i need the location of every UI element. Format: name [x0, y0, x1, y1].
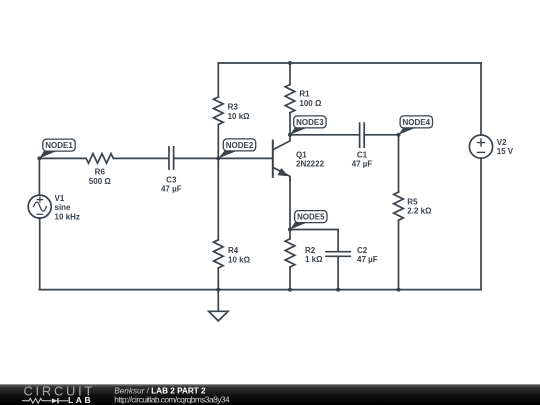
footer bar — [0, 384, 540, 405]
wire NODE4 to R5 — [398, 135, 400, 192]
footer url text — [114, 394, 230, 404]
resistor R1 — [285, 85, 295, 113]
label V1 value — [55, 194, 80, 222]
wire C3 to Q1 base — [174, 157, 272, 159]
wire V2 top lead — [480, 63, 482, 135]
svg-text:2N2222: 2N2222 — [296, 160, 325, 169]
svg-text:http://circuitlab.com/cqrqbms3: http://circuitlab.com/cqrqbms3a8y34 — [114, 394, 230, 404]
svg-text:C3: C3 — [166, 175, 177, 184]
transistor Q1 — [273, 135, 290, 181]
node NODE5 — [290, 211, 327, 230]
svg-text:47 µF: 47 µF — [352, 160, 373, 169]
label C3 value — [161, 175, 182, 193]
junction NODE5 — [288, 228, 292, 232]
wire R1 top lead — [289, 63, 291, 85]
svg-text:47 µF: 47 µF — [357, 255, 378, 264]
svg-text:R4: R4 — [228, 246, 239, 255]
svg-text:10 kΩ: 10 kΩ — [228, 112, 251, 121]
svg-text:V2: V2 — [497, 138, 507, 147]
wire C1 to NODE4 — [365, 134, 399, 136]
label C1 value — [352, 150, 373, 168]
svg-text:1 kΩ: 1 kΩ — [305, 255, 323, 264]
label R4 value — [228, 246, 251, 264]
resistor R4 — [214, 240, 224, 268]
label R3 value — [228, 103, 251, 121]
junction R2 bottom — [288, 288, 292, 292]
label C2 value — [357, 246, 378, 264]
svg-text:2.2 kΩ: 2.2 kΩ — [407, 207, 432, 216]
label Q1 value — [296, 150, 325, 168]
svg-text:LAB: LAB — [68, 395, 93, 405]
wire NODE5 to C2 branch — [290, 230, 338, 251]
wire R3 to NODE2 — [217, 125, 219, 159]
wire R5 to bottom rail — [398, 220, 400, 289]
svg-text:100 Ω: 100 Ω — [299, 99, 322, 108]
wire R2 to bottom rail — [289, 267, 291, 290]
junction NODE2 — [216, 156, 220, 160]
resistor R5 — [394, 192, 404, 220]
svg-text:Q1: Q1 — [296, 150, 307, 159]
junction NODE1 — [37, 156, 41, 160]
voltage source V1 — [28, 195, 51, 218]
label R5 value — [407, 197, 432, 215]
svg-text:10 kΩ: 10 kΩ — [228, 255, 251, 264]
svg-text:R1: R1 — [299, 90, 310, 99]
wire NODE5 to R2 — [289, 230, 291, 239]
resistor R6 — [86, 154, 113, 164]
wire NODE1 to R6 — [39, 157, 86, 159]
svg-text:sine: sine — [55, 203, 72, 212]
svg-text:R3: R3 — [228, 103, 239, 112]
svg-text:NODE1: NODE1 — [45, 141, 73, 150]
voltage source V2 — [469, 135, 492, 158]
footer title text — [114, 386, 206, 395]
junction R5 bottom — [397, 288, 401, 292]
wire R4 bottom lead — [217, 268, 219, 290]
svg-text:47 µF: 47 µF — [161, 185, 182, 194]
wire R3 top lead — [217, 63, 219, 97]
wire V2 to bottom rail — [480, 158, 482, 289]
label R1 value — [299, 90, 322, 108]
junction NODE4 — [397, 133, 401, 137]
wire NODE2 to R4 — [217, 158, 219, 239]
junction C2 bottom — [336, 288, 340, 292]
capacitor C3 — [169, 147, 174, 169]
wire R1 to NODE3 — [289, 113, 291, 135]
svg-text:R6: R6 — [95, 168, 106, 177]
wire ground lead — [217, 290, 219, 312]
wire bottom rail — [39, 289, 481, 291]
junction top rail R1 — [288, 61, 292, 65]
svg-text:C2: C2 — [357, 246, 368, 255]
label V2 value — [497, 138, 514, 156]
wire top rail — [218, 62, 481, 64]
capacitor C2 — [326, 252, 350, 257]
junction ground — [216, 288, 220, 292]
svg-text:15 V: 15 V — [497, 147, 514, 156]
svg-text:R5: R5 — [407, 197, 418, 206]
node NODE3 — [290, 116, 326, 135]
resistor R2 — [285, 239, 295, 267]
svg-text:500 Ω: 500 Ω — [89, 177, 112, 186]
wire R6 to C3 — [113, 157, 168, 159]
svg-text:10 kHz: 10 kHz — [55, 212, 80, 221]
logo CIRCUIT text — [24, 384, 96, 399]
node NODE2 — [218, 139, 255, 159]
wire NODE1 to V1 — [38, 158, 40, 195]
ground — [209, 311, 228, 321]
node NODE1 — [39, 139, 75, 158]
svg-text:NODE5: NODE5 — [297, 213, 325, 222]
wire C2 to bottom rail — [337, 257, 339, 290]
svg-text:V1: V1 — [55, 194, 65, 203]
svg-text:NODE3: NODE3 — [296, 118, 324, 127]
wire NODE3 to C1 — [290, 134, 359, 136]
logo resistor-diode glyph — [22, 398, 68, 403]
label R6 value — [89, 168, 112, 186]
label R2 value — [305, 246, 323, 264]
svg-text:R2: R2 — [305, 246, 316, 255]
wire V1 to bottom rail — [39, 218, 41, 290]
junction NODE3 — [288, 133, 292, 137]
node NODE4 — [399, 116, 433, 135]
wire Q1 emitter to NODE5 — [289, 178, 291, 230]
svg-text:NODE2: NODE2 — [226, 141, 254, 150]
logo LAB text — [68, 395, 93, 405]
svg-text:C1: C1 — [357, 150, 368, 159]
resistor R3 — [214, 97, 224, 125]
svg-text:NODE4: NODE4 — [403, 118, 431, 127]
capacitor C1 — [360, 123, 365, 147]
